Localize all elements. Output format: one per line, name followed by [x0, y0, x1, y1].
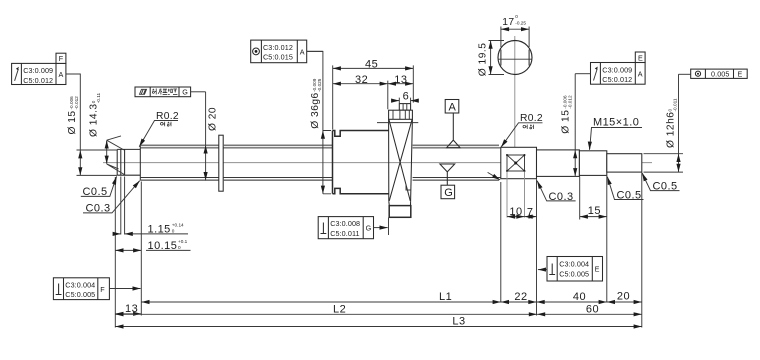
left journal Ø15 dim extension lines	[77, 150, 118, 175]
left journal Ø15 end face	[116, 149, 118, 175]
svg-text:C5:0.005: C5:0.005	[65, 290, 95, 299]
svg-text:G: G	[182, 88, 188, 97]
leader F frame arrow to shoulder extension	[109, 288, 140, 290]
extension lines crossed square down	[507, 172, 525, 218]
left journal Ø15 top and bottom edges	[117, 149, 140, 175]
svg-text:M15×1.0: M15×1.0	[593, 117, 639, 129]
svg-text:-0.11: -0.11	[96, 92, 101, 103]
feature control frame perpendicularity F bottom left	[53, 278, 109, 300]
svg-text:A: A	[59, 70, 64, 79]
svg-text:Ø 20: Ø 20	[207, 107, 218, 131]
dim 10.15 with tolerance	[115, 239, 190, 252]
svg-text:13: 13	[125, 303, 138, 315]
leader right frame to Ø15 dim	[575, 73, 590, 75]
svg-text:L3: L3	[452, 315, 465, 327]
cylinder Ø36g6 with relief groove	[333, 131, 389, 194]
end view flat side lines	[501, 50, 529, 66]
svg-text:32: 32	[355, 74, 368, 86]
svg-text:10.15: 10.15	[148, 240, 178, 252]
svg-text:0: 0	[172, 229, 175, 234]
centerline of shaft	[103, 162, 652, 164]
dim L2	[115, 304, 537, 316]
svg-text:C5:0.005: C5:0.005	[559, 269, 589, 278]
datum box F above frame	[56, 53, 66, 63]
chamfer label C0.3 left	[83, 181, 140, 215]
surface treatment box see-table G	[135, 87, 191, 97]
svg-text:-0.012: -0.012	[568, 95, 573, 109]
leader perpendicularity frame arrow to nut extension	[374, 227, 388, 229]
end view circle Ø19.5 with flats	[498, 41, 532, 75]
svg-text:C5:0.011: C5:0.011	[330, 229, 359, 238]
korean text see table below (drawn strokes)	[152, 89, 177, 95]
svg-text:C5:0.015: C5:0.015	[263, 53, 293, 62]
svg-text:-0.025: -0.025	[317, 78, 322, 92]
dim 10 flats	[507, 206, 525, 218]
sub label below R0.2 right (korean strokes)	[523, 125, 534, 130]
svg-text:L1: L1	[439, 291, 452, 303]
datum A stem and triangle	[447, 113, 461, 148]
dim 60	[537, 304, 642, 316]
ball nut top cap serrated	[399, 104, 410, 111]
svg-text:1.15: 1.15	[148, 223, 171, 235]
thin disc ring on shaft	[219, 135, 223, 191]
extension lines for dim 45 and 32	[333, 65, 414, 129]
svg-text:45: 45	[365, 59, 378, 71]
wrench flat section 22	[501, 147, 537, 178]
svg-text:G: G	[366, 224, 372, 233]
dim 6 outside arrows	[392, 91, 417, 103]
datum box E above right frame	[635, 52, 645, 63]
svg-text:Ø 36g6: Ø 36g6	[310, 92, 321, 128]
svg-text:6: 6	[403, 91, 410, 103]
svg-text:C3:0.004: C3:0.004	[65, 280, 95, 289]
svg-text:A: A	[300, 48, 305, 57]
svg-text:-0.012: -0.012	[74, 96, 79, 110]
svg-text:17: 17	[502, 17, 514, 28]
centerline of end view circle	[514, 36, 516, 176]
svg-text:C3:0.008: C3:0.008	[330, 219, 360, 228]
extension lines for dim Ø19.5	[489, 41, 505, 75]
ball nut upper block inner lines	[393, 110, 409, 119]
svg-text:10: 10	[509, 206, 522, 218]
crossed square flat marking	[507, 155, 525, 171]
dim 22	[501, 291, 537, 303]
svg-text:C5:0.012: C5:0.012	[602, 75, 632, 84]
dim 32	[333, 74, 388, 86]
end view flat chord line	[498, 58, 531, 60]
extension lines for dim 17	[501, 27, 529, 48]
thread section A crest lines Ø20	[141, 145, 219, 180]
svg-text:E: E	[595, 265, 600, 274]
sub label below R0.2 left (korean strokes)	[161, 122, 172, 127]
ball nut body cross hatch X	[389, 120, 412, 201]
svg-text:A: A	[449, 101, 457, 113]
R0.2 label left with leader	[139, 111, 179, 147]
svg-text:F: F	[100, 285, 105, 294]
dim 15 thread length	[580, 205, 607, 217]
chamfer label C0.3 right	[537, 181, 576, 203]
end section Ø12h6	[607, 154, 642, 172]
leader E frame arrow to 537 extension	[538, 269, 547, 271]
svg-text:Ø 15: Ø 15	[67, 110, 78, 134]
dim Ø12h6 with leader to concentricity frame	[644, 74, 684, 172]
datum A box on thread	[445, 100, 459, 114]
svg-text:7: 7	[527, 207, 534, 219]
shoulder face at Ø20 thread start	[139, 145, 141, 181]
cylinder section Ø15 right	[537, 150, 580, 177]
datum G stem and triangle	[440, 164, 455, 185]
svg-text:Ø 14.3: Ø 14.3	[89, 103, 100, 137]
svg-text:C3:0.012: C3:0.012	[263, 43, 293, 52]
svg-text:C3:0.009: C3:0.009	[602, 65, 632, 74]
svg-text:Ø 12h6: Ø 12h6	[665, 112, 676, 148]
dim Ø36g6 with leader to frame	[307, 51, 331, 193]
svg-text:0: 0	[515, 14, 518, 19]
svg-text:+0.14: +0.14	[172, 223, 184, 228]
svg-text:22: 22	[514, 291, 527, 303]
extension line flats start down	[500, 182, 502, 303]
feature control frame runout C3/C5 datum A top left	[12, 63, 66, 84]
concentricity 0.005 E frame far right	[691, 69, 748, 79]
datum G box below thread	[441, 185, 455, 199]
crossed square corner and center dots	[514, 162, 517, 165]
leader surface box to Ø20 dim	[191, 91, 206, 93]
dim 13 nut	[388, 74, 414, 86]
thread section A root lines	[141, 148, 219, 178]
svg-text:-0.011: -0.011	[673, 98, 678, 111]
dim Ø14.3 with jogged extensions	[89, 92, 125, 174]
svg-text:0.005: 0.005	[711, 70, 730, 79]
extension line shoulder down	[140, 182, 142, 316]
extension line for dim 15	[579, 177, 581, 220]
svg-text:60: 60	[586, 304, 599, 316]
feature control frame runout C3/C5 datum A right with E box	[591, 63, 646, 85]
extension line shaft end down	[641, 173, 643, 328]
groove extension lines down to 1.15 dim	[121, 177, 125, 235]
dim 17 with tolerance	[501, 14, 529, 29]
leader concentricity frame to Ø12h6 dim	[679, 73, 691, 75]
dim Ø20 with leader to G surface box	[206, 92, 219, 180]
svg-text:Ø 19.5: Ø 19.5	[478, 43, 489, 77]
svg-text:A: A	[638, 69, 643, 78]
thread section C root lines	[413, 148, 501, 178]
leader frame to Ø15 dim	[66, 73, 80, 75]
ball nut small step on right edge	[406, 185, 411, 190]
svg-text:13: 13	[394, 74, 407, 86]
svg-text:40: 40	[573, 291, 586, 303]
feature control frame perpendicularity G bottom middle	[318, 217, 373, 239]
dim 45	[333, 59, 414, 71]
svg-text:Ø 15: Ø 15	[560, 110, 571, 134]
feature control frame perpendicularity E bottom right	[547, 257, 603, 282]
thread section C crest lines	[413, 145, 499, 180]
svg-text:E: E	[738, 70, 743, 79]
svg-text:+0.1: +0.1	[178, 239, 188, 244]
svg-text:0: 0	[178, 245, 181, 250]
chamfer label C0.5 far right	[642, 173, 679, 193]
dim Ø15 right with leader to frame E	[560, 74, 575, 177]
svg-text:-0.25: -0.25	[515, 20, 526, 25]
thread section B root lines	[223, 148, 332, 178]
extension line nut foot down	[388, 218, 390, 236]
chamfer label C0.5 left	[81, 176, 117, 198]
feature control frame concentricity C3/C5 datum A	[251, 40, 307, 63]
dim 20	[607, 291, 642, 303]
chamfer label C0.5 middle right	[607, 177, 643, 202]
dim 7	[525, 207, 537, 219]
ball nut foot connectors	[389, 201, 411, 205]
dim 13 left bottom	[115, 303, 141, 315]
extension lines for dim 6	[399, 98, 410, 103]
M15x1.0 thread label	[590, 117, 643, 150]
leader concentricity frame to Ø36 dim	[307, 50, 323, 52]
ball nut upper block serrated	[389, 110, 413, 119]
R0.2 label right with leaders	[488, 113, 543, 180]
ball nut cap inner lines	[403, 104, 407, 111]
svg-text:C5:0.012: C5:0.012	[23, 76, 53, 85]
ball nut foot flange	[389, 206, 411, 218]
ball nut body side edges	[389, 119, 413, 201]
groove 1.15 wall lines on journal	[121, 149, 125, 175]
dim 40	[537, 291, 607, 303]
dim Ø19.5	[478, 41, 491, 77]
dim Ø15 left with leader to frame F	[66, 74, 80, 175]
thread section B crest lines Ø20	[223, 145, 332, 180]
svg-text:20: 20	[617, 291, 630, 303]
svg-text:L2: L2	[333, 304, 346, 316]
ball pitch line through nut	[377, 122, 418, 124]
svg-text:F: F	[59, 54, 64, 63]
extension line step 607 down	[606, 176, 608, 303]
svg-text:G: G	[444, 187, 453, 199]
svg-text:C3:0.004: C3:0.004	[559, 260, 589, 269]
extension line left end face down	[114, 177, 116, 328]
svg-text:C3:0.009: C3:0.009	[23, 66, 53, 75]
extension line step 537 down	[536, 179, 538, 315]
dim L1	[141, 291, 501, 303]
svg-text:E: E	[638, 53, 643, 62]
svg-text:15: 15	[588, 205, 601, 217]
dim 1.15 groove with tolerance	[114, 223, 188, 236]
dim L3	[115, 315, 642, 327]
thread section M15x1.0	[579, 151, 606, 176]
